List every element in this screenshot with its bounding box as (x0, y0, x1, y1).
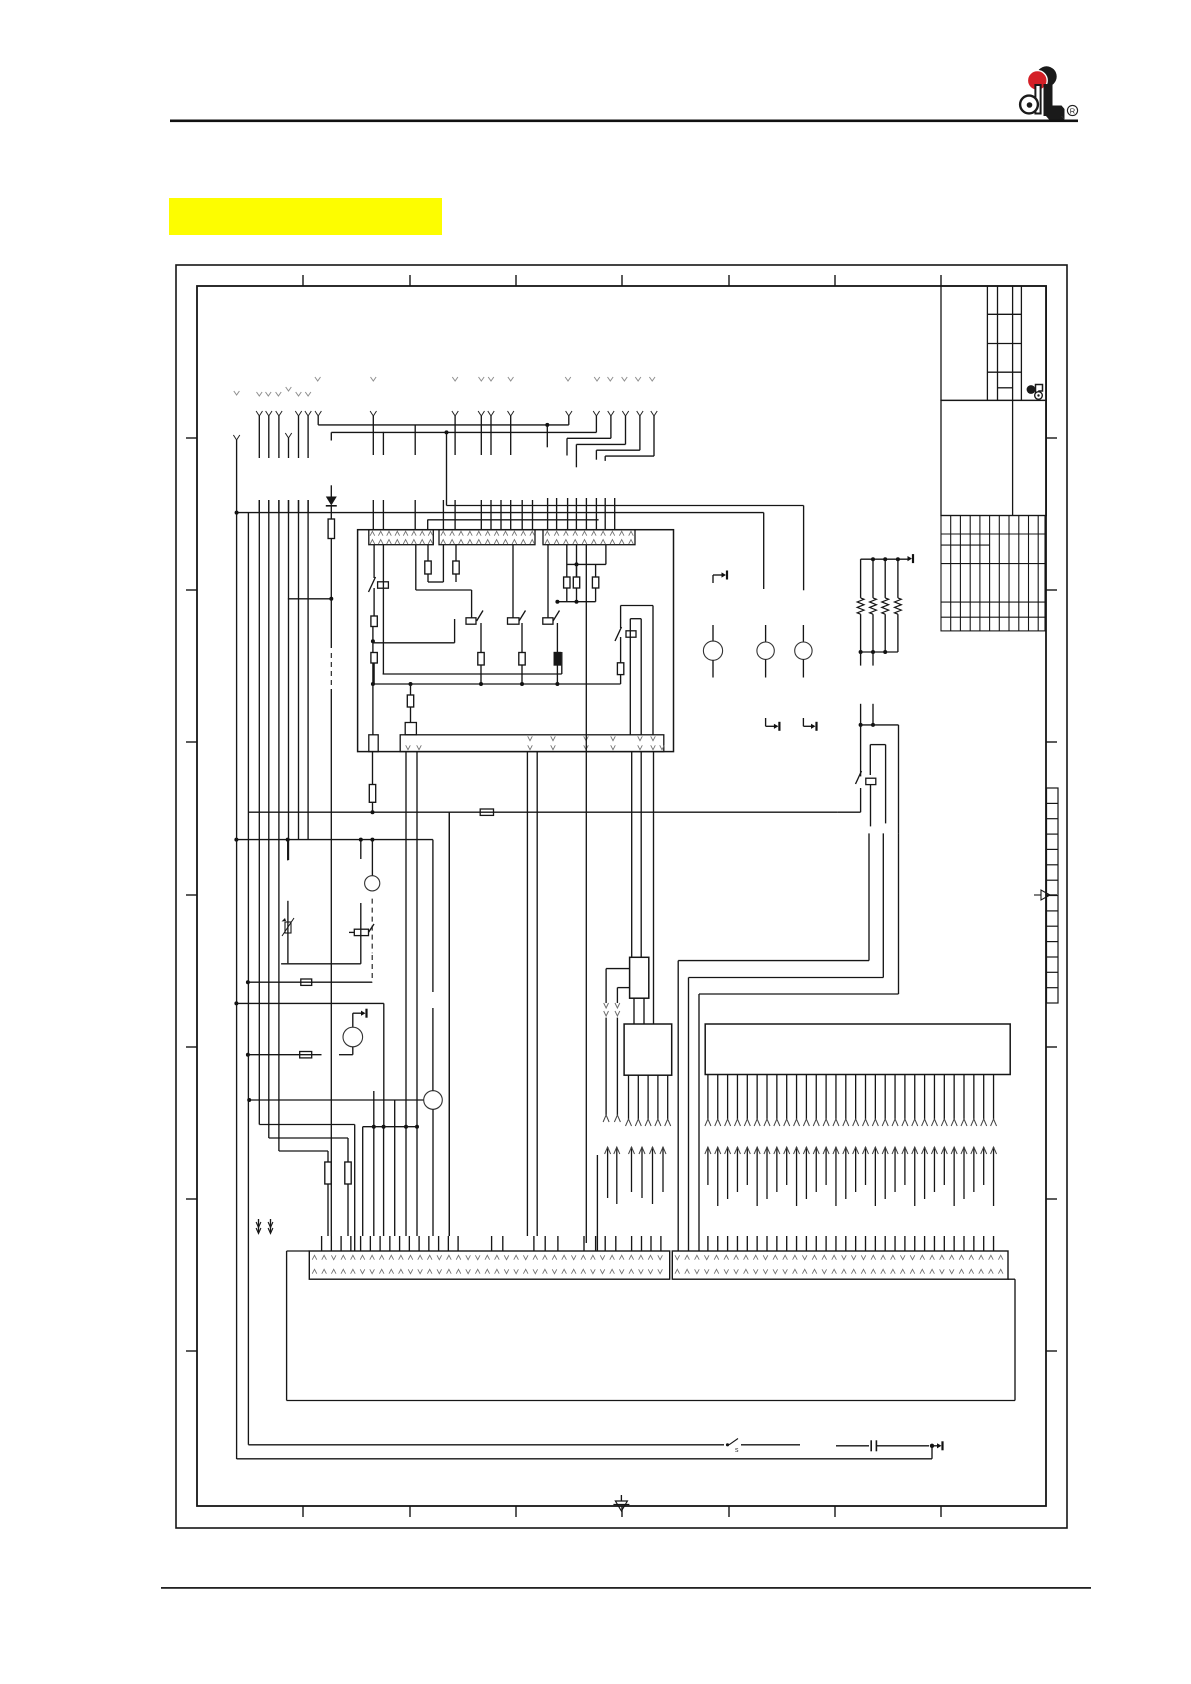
heater resistor network RN1 (857, 554, 913, 666)
manufacturer logo (1020, 66, 1064, 119)
board connector strip CN1 (369, 530, 434, 545)
supply rail C (234, 1001, 383, 1126)
display pins left pair arrows (605, 1147, 620, 1204)
junction rail (363, 1127, 417, 1236)
cut-off connector arrows lower row (234, 387, 311, 396)
terminal E3 (803, 718, 816, 731)
terminal E4 (353, 1009, 367, 1027)
diode D1 (326, 485, 337, 519)
wire PCB feed 1 (678, 833, 869, 1251)
motor M1 (365, 840, 380, 891)
wire branch 5 (298, 500, 300, 839)
driver IC U2 (624, 1024, 672, 1075)
capacitor C1 (871, 1440, 929, 1451)
sensor RT1 (281, 901, 361, 964)
resistor R8 (554, 653, 560, 685)
pcb connector pins row (322, 1236, 994, 1251)
wire stub CN1a (416, 545, 472, 618)
resistor R9 (564, 545, 570, 588)
board bottom connector strip CN4 (400, 735, 664, 752)
wire T1 drops (632, 752, 654, 1024)
wire stub B1 (287, 840, 289, 861)
resistor R3 (453, 545, 459, 582)
staircase wire 6 (605, 416, 654, 461)
wire display feed 1 (606, 969, 630, 1003)
relay contact S1 with coil resistor (369, 545, 389, 616)
wire pair drop B (586, 735, 597, 1251)
bus wire to lamp H3 (447, 506, 804, 591)
wire drop 449 (448, 812, 450, 1236)
wire pair drop A (527, 752, 537, 1236)
pcb connector strip CN5 (309, 1251, 669, 1279)
wire branch 2 (269, 500, 348, 1162)
main pcb outline (287, 1251, 1015, 1401)
resistor R15 line (246, 979, 372, 985)
wire stub B2 (360, 840, 362, 859)
pcb connector strip CN6 (672, 1251, 1008, 1279)
wire dashed drop (371, 955, 373, 982)
bus wire board link (428, 519, 599, 521)
staircase wire 4 (576, 416, 625, 467)
return wire neutral (237, 1458, 932, 1460)
relay contact S2 (466, 611, 483, 653)
wire PCB feed 2 (689, 833, 884, 1251)
wire loop right (630, 619, 641, 735)
terminal E2 (766, 718, 780, 731)
board connector strip CN2 (439, 530, 535, 545)
revision table grid (941, 516, 1045, 631)
wire CN4 drop 4 (382, 1125, 386, 1236)
registered trademark mark (1067, 105, 1077, 115)
U2 pins (626, 1075, 671, 1126)
U2 return arrows (629, 1147, 667, 1204)
wire board node A (555, 545, 606, 604)
resistor R1 (328, 519, 334, 546)
loose arrows feed pair (603, 1003, 620, 1122)
wire CN4 through (585, 545, 587, 735)
orientation arrow (1041, 890, 1050, 900)
board terminal box (369, 735, 378, 752)
resistor R14 (369, 752, 375, 813)
fold mark square column (1047, 788, 1059, 1003)
power board K1 outline (358, 530, 674, 752)
title block logo stamp (1027, 385, 1043, 400)
thermostat S6 (856, 771, 876, 785)
resistor R2 (425, 545, 431, 582)
wire sense line (838, 788, 861, 812)
staircase wire 5 (596, 416, 640, 460)
resistor R17 (325, 1162, 331, 1236)
supply rail A (248, 809, 837, 815)
resistor R5 (371, 653, 377, 685)
loose arrows down pair (256, 1219, 273, 1234)
wire mains L (236, 440, 238, 1459)
thermostat block wires (859, 704, 899, 834)
pressure switch S7 (349, 899, 374, 954)
lamp H1 (703, 625, 722, 678)
inner drawing frame (197, 286, 1046, 1506)
relay contact S5 (615, 606, 653, 735)
wire branch 7 (288, 546, 333, 1236)
resistor R13 (407, 684, 413, 723)
resistor R18 (345, 1162, 351, 1236)
door switch S8 (726, 1439, 800, 1455)
wire drop 449 (448, 812, 450, 1236)
wire drop 394 (394, 1100, 396, 1236)
staircase wire 3 (567, 416, 611, 456)
feed wires to board connector 1 (373, 416, 427, 529)
wire L1 bus (318, 416, 569, 447)
feed wires to board connector 2 (443, 416, 532, 529)
ground symbol (613, 1495, 629, 1511)
main supply bus (235, 511, 764, 589)
title block (941, 286, 1046, 516)
wire board node B (371, 619, 455, 653)
thermostat loop wire (870, 745, 885, 827)
wire N bus (331, 416, 596, 506)
board relay box K1a (405, 723, 416, 735)
wire bundle left harness lower segments (259, 500, 308, 513)
wire branch 4 (288, 500, 290, 860)
lamp H2 (757, 625, 774, 678)
wire branch 6 (307, 500, 309, 839)
lamp H3 (795, 625, 812, 678)
relay contact S4 (543, 545, 560, 652)
resistor R10 (573, 545, 579, 588)
feed wires to board connector 3 (548, 498, 615, 529)
cut-off connector arrows upper row (315, 377, 655, 381)
harness fan-out right tops (370, 411, 657, 416)
wire mains N (247, 513, 249, 1445)
wire CN4 drop 2 (415, 752, 419, 1236)
wire branch 1 (259, 500, 354, 1251)
wire bundle left harness tops (233, 411, 321, 458)
wire board bus lower (371, 545, 621, 735)
wire branch 3 (279, 500, 328, 1162)
return wire segment (836, 1445, 869, 1447)
terminal E5 (930, 1441, 943, 1459)
return wire live (248, 1444, 724, 1446)
page footer rule (161, 1587, 1091, 1589)
resistor R11 (592, 564, 598, 588)
supply rail B (234, 838, 433, 842)
U1 return arrows (705, 1147, 997, 1206)
resistor R16 line (246, 1052, 353, 1058)
wire PCB feed 3 (699, 833, 899, 1251)
wire U-link (428, 545, 443, 582)
resistor R6 (478, 653, 484, 685)
resistor R7 (519, 653, 525, 685)
fan motor M3 (247, 840, 442, 1236)
U1 pins (705, 1075, 997, 1127)
board connector strip CN3 (543, 530, 635, 545)
main controller U1 (705, 1024, 1010, 1075)
svg-text:s: s (735, 1447, 739, 1454)
outer drawing frame (176, 265, 1067, 1528)
relay contact S3 (508, 545, 526, 652)
terminal E1 (713, 571, 727, 584)
transformer T1 (630, 957, 649, 998)
motor M2 (343, 1027, 363, 1055)
frame zone tick marks (186, 275, 1057, 1517)
wire display feed 2 (617, 988, 629, 1003)
page header rule (170, 120, 1078, 123)
resistor R12 (617, 663, 623, 684)
wire CN4 drop 1 (404, 752, 408, 1236)
resistor R4 (371, 616, 377, 627)
highlighted section title bar (169, 198, 442, 235)
svg-text:R: R (1070, 106, 1076, 115)
wire CN4 drop 3 (372, 1091, 376, 1236)
